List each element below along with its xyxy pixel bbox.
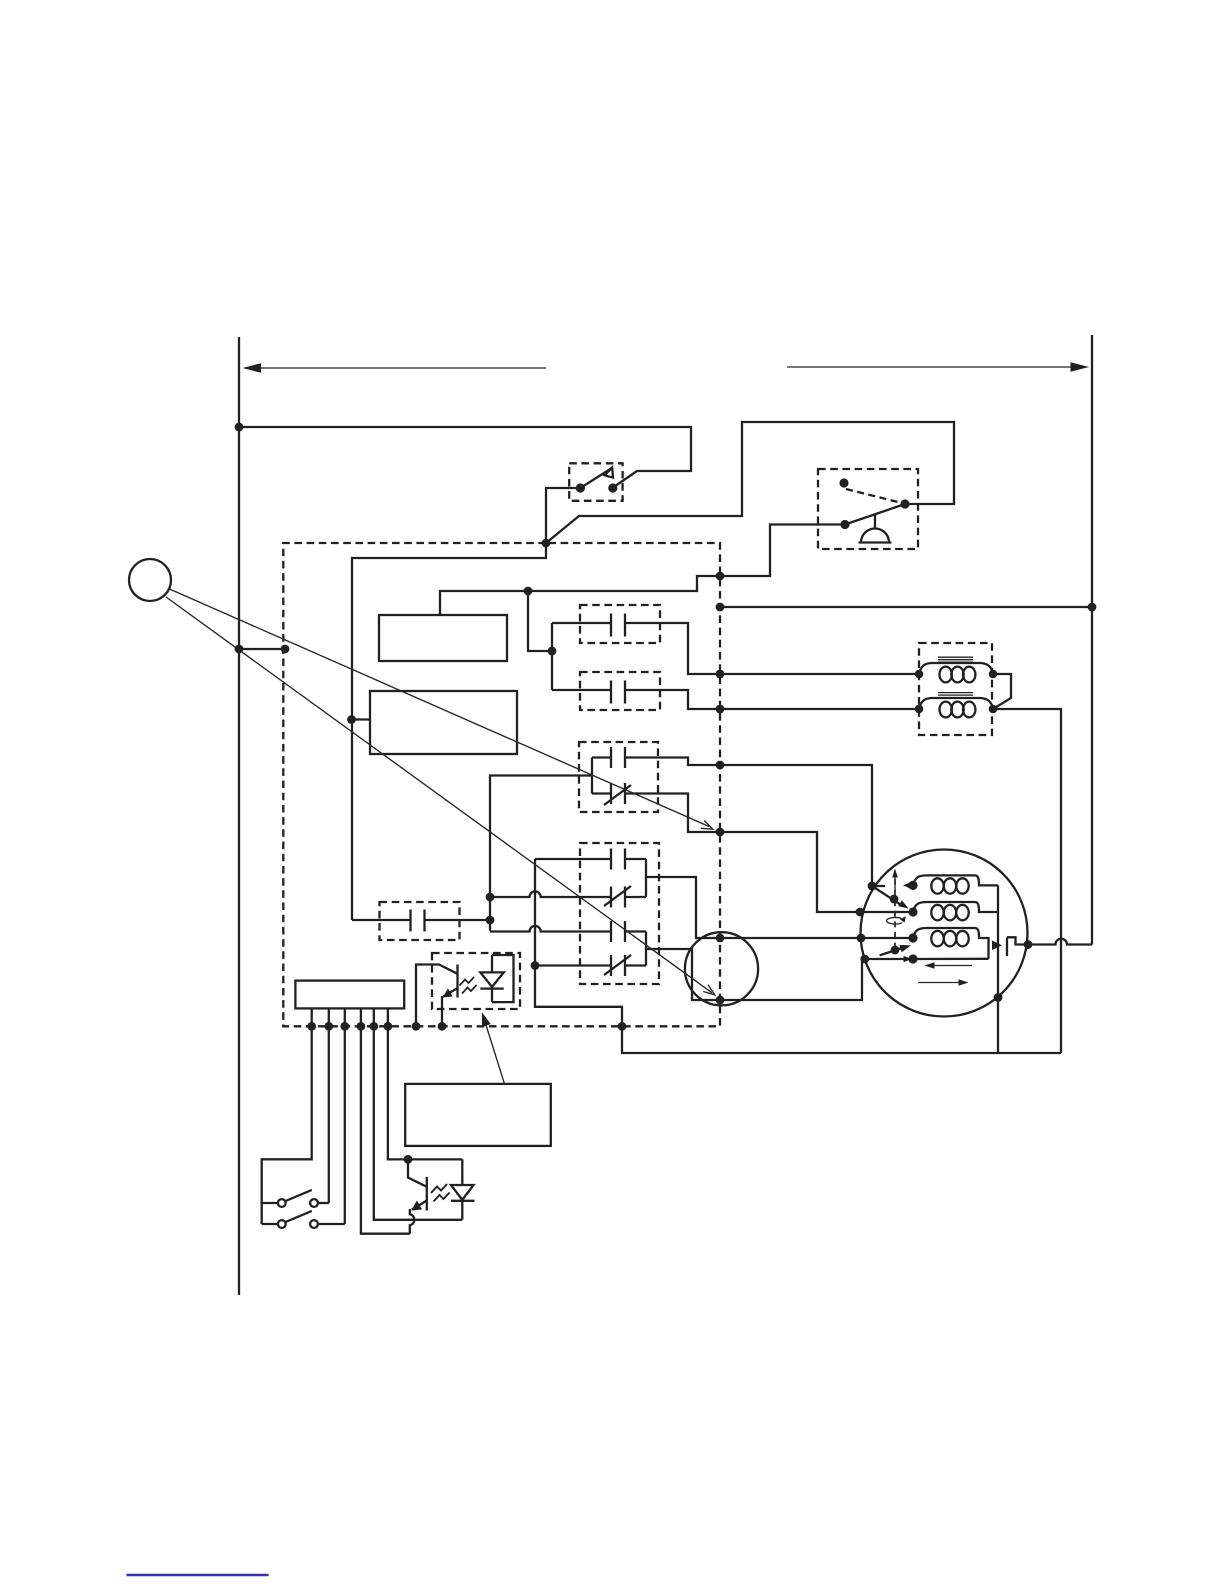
leader line to terminal T8 — [166, 597, 715, 995]
wire from node down-left into timer — [352, 543, 546, 920]
buzzer stem — [874, 515, 876, 529]
timer dial circle — [129, 559, 171, 601]
wire diagonal node to line-voltage rail — [546, 422, 954, 543]
motor main winding — [913, 902, 998, 920]
motor switch common node — [868, 882, 877, 891]
connector strip CN1 — [295, 981, 404, 1009]
buzzer switch arm — [845, 504, 905, 525]
node main winding left crossing — [856, 908, 865, 917]
wire terminal T6 to main winding — [720, 832, 913, 912]
buzzer switch contacts — [900, 499, 909, 508]
transformer T dashed box — [919, 643, 992, 735]
node terminal T1 (576) — [716, 572, 725, 581]
wire terminal T1 to heater tap riser — [440, 576, 720, 615]
motor switch arm pivot node — [890, 895, 899, 904]
node C9 tap on bus — [531, 961, 540, 970]
generator G circle — [685, 932, 758, 1005]
capacitor C1 — [552, 614, 720, 675]
relay box K2 — [370, 691, 517, 754]
capacitor C5 — [535, 849, 646, 870]
wire top supply — [239, 427, 691, 488]
transformer terminals — [915, 670, 924, 679]
relay box K1 — [379, 615, 507, 661]
centrifugal switch fixed contact — [1006, 938, 1008, 957]
left border line L1 — [238, 337, 240, 1295]
capacitor C8 — [352, 910, 490, 932]
node K2 feed — [347, 715, 356, 724]
start circuit arrow — [904, 956, 912, 962]
node terminal T7 (938) — [716, 934, 725, 943]
door switch S2 — [262, 1190, 329, 1207]
wire transformer link — [993, 674, 1011, 709]
node terminal T6 (832) — [716, 828, 725, 837]
pcb leader arrow — [482, 1012, 505, 1084]
switch S1 dashed box — [569, 463, 622, 501]
motor aux winding arrow — [903, 882, 910, 888]
leader line to terminal T6 — [170, 589, 713, 829]
connector pin wires — [262, 1008, 463, 1233]
motor start winding terminal — [908, 933, 917, 942]
wire S1 left to timer box — [546, 488, 580, 543]
wire buzzer arm to timer terminal — [720, 525, 845, 577]
U1 phototransistor — [416, 965, 458, 1027]
start circuit node — [908, 954, 917, 963]
node left rail tap — [235, 645, 244, 654]
node right rail junction — [1088, 603, 1097, 612]
node rail junction mid — [524, 587, 533, 596]
wire junction down to capacitor feed — [528, 591, 552, 651]
node S1 feed on dashed edge — [542, 539, 551, 548]
node capacitor feed — [548, 647, 557, 656]
transformer core 2 — [938, 693, 973, 698]
U1 LED — [480, 955, 504, 1002]
U1 node emitter — [438, 1022, 447, 1031]
motor axis arrow — [892, 869, 898, 891]
node cap bank feed upper — [486, 893, 495, 902]
switch S1 arm — [580, 468, 612, 489]
U2 light coupling zigzag — [431, 1184, 450, 1202]
optocoupler U2 phototransistor — [408, 1159, 427, 1233]
wire C3/C4 common left — [490, 758, 592, 931]
capacitor C2 dashed box — [580, 672, 660, 710]
motor rotation symbol — [887, 916, 906, 924]
node centrifugal wire circle crossing — [1024, 940, 1033, 949]
motor axis dashed — [894, 879, 896, 948]
capacitor C6 variable — [490, 886, 646, 908]
node cap bank feed lower — [486, 916, 495, 925]
wire tap stub to timer box — [239, 648, 285, 650]
footer blue rule — [127, 1574, 269, 1577]
node terminal T4 (709) — [716, 705, 725, 714]
motor start winding — [913, 928, 989, 959]
connector pin nodes — [307, 1022, 392, 1031]
right border line L2 — [1091, 335, 1093, 945]
wire C5/C6 right pair tap — [646, 859, 913, 938]
node terminal T3 (674) — [716, 670, 725, 679]
motor M circle — [861, 850, 1028, 1017]
switch S1 cam follower triangle — [605, 468, 613, 478]
wire terminal T2 to right rail — [720, 606, 1092, 608]
motor capacitor bank dashed box — [580, 843, 659, 984]
wire K2 stub — [352, 718, 371, 720]
wire C5 left drop bus — [535, 859, 1061, 1053]
wire transformer secondary lead — [993, 709, 1061, 1053]
U1 light coupling zigzag — [460, 977, 477, 994]
capacitor pair C3/C4 dashed box — [579, 742, 658, 812]
U1 node collector — [412, 1022, 421, 1031]
buzzer dome — [859, 529, 892, 543]
capacitor C3 — [592, 747, 720, 768]
capacitor C7 — [490, 921, 646, 942]
capacitor C8 dashed box — [380, 902, 460, 940]
transformer primary winding — [919, 663, 993, 682]
motor rotation arrow ccw — [925, 962, 973, 968]
pcb box — [405, 1084, 551, 1146]
node terminal T8 (1000) — [716, 996, 725, 1005]
node terminal T5 (765) — [716, 761, 725, 770]
node terminal T2 (607) — [716, 603, 725, 612]
wire capacitor feed bus — [551, 623, 553, 690]
motor switch arm — [872, 886, 909, 909]
motor aux winding terminal — [908, 881, 917, 890]
motor rotation arrow cw — [918, 979, 969, 985]
capacitor C9 variable — [535, 955, 646, 976]
node top-left — [235, 423, 244, 432]
motor switch tick — [872, 885, 885, 887]
wire C7/C9 right pair tap — [646, 932, 913, 1001]
buzzer switch top contact — [839, 478, 848, 487]
capacitor C2 — [552, 681, 720, 710]
motor main winding terminal — [908, 907, 917, 916]
node stub on dashed edge — [281, 645, 290, 654]
node aux lead circle crossing — [994, 993, 1003, 1002]
wire terminal T4 to transformer — [720, 708, 919, 710]
door switch S3 — [262, 1211, 345, 1228]
centrifugal switch step wire — [1007, 937, 1092, 944]
capacitor C4 variable — [592, 783, 720, 832]
dimension arrow right — [787, 362, 1089, 372]
node bus crossing dashed edge — [618, 1022, 627, 1031]
U2 node top — [404, 1155, 413, 1164]
transformer secondary winding — [919, 698, 993, 717]
motor speed arm — [880, 948, 902, 955]
motor aux winding — [913, 875, 998, 893]
wire terminal T5 to motor switch common — [720, 765, 872, 886]
buzzer switch dashed throw — [846, 489, 900, 503]
capacitor C1 dashed box — [580, 605, 660, 643]
motor speed arm arrowhead — [899, 945, 911, 952]
node start circuit left crossing — [860, 955, 869, 964]
dimension arrow left — [243, 363, 547, 373]
transformer core — [938, 657, 973, 662]
switch S1 contacts — [576, 483, 585, 492]
optocoupler U1 dashed box — [432, 953, 520, 1009]
U2 LED — [451, 1159, 475, 1219]
node start winding left crossing — [857, 934, 866, 943]
motor speed arm pivot node — [891, 946, 900, 955]
centrifugal switch moving contact — [992, 941, 1002, 951]
motor aux lead vertical — [997, 885, 999, 1053]
timer unit dashed enclosure — [283, 543, 720, 1026]
buzzer switch dashed box — [818, 469, 918, 549]
wire start circuit bottom — [913, 958, 989, 961]
wire terminal T3 to transformer — [720, 673, 919, 675]
U1 LED return loop — [492, 955, 514, 1002]
